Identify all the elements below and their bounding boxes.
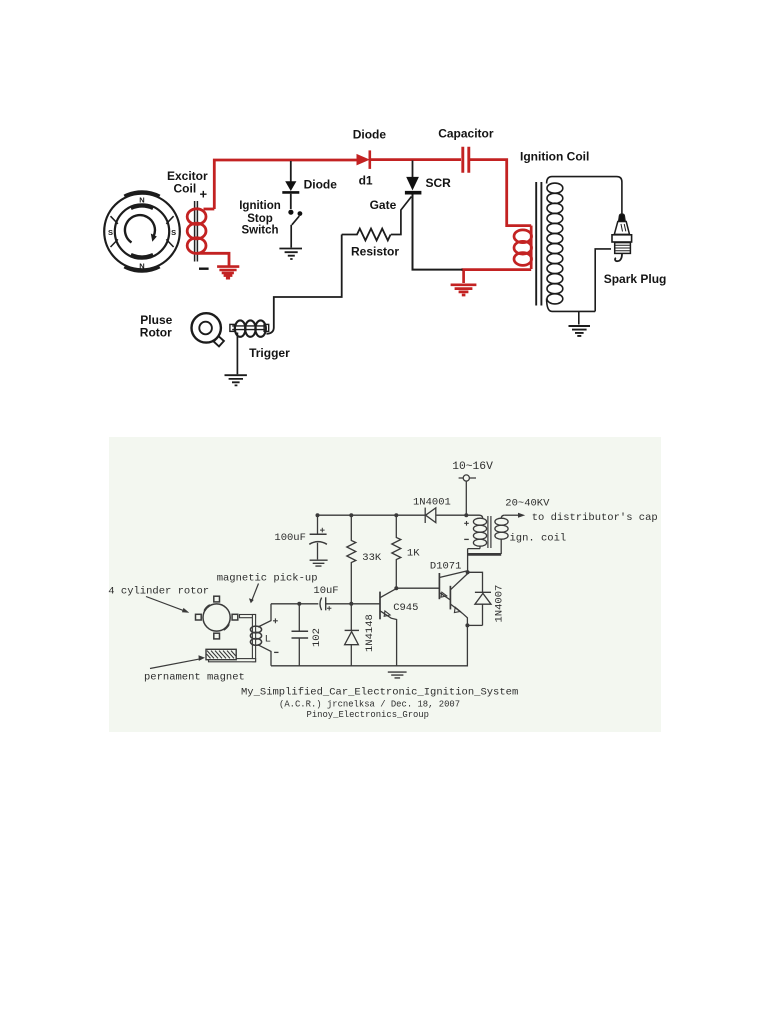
diode 1N4148 bbox=[345, 604, 359, 666]
svg-text:d1: d1 bbox=[359, 173, 373, 187]
plus mark primary bbox=[464, 521, 469, 526]
svg-text:Diode: Diode bbox=[304, 177, 338, 191]
ignition coil T1 secondary winding bbox=[495, 515, 508, 539]
transistor C945 bbox=[380, 589, 397, 666]
pickup coil L bbox=[250, 626, 261, 645]
flywheel magneto rotor bbox=[104, 192, 180, 271]
wire trigger coil to ground bbox=[236, 333, 238, 375]
schematic 2 background panel bbox=[109, 437, 661, 732]
SCR Q1 bbox=[405, 177, 422, 193]
ignition coil primary (red) bbox=[514, 226, 532, 269]
svg-text:D1071: D1071 bbox=[430, 561, 462, 573]
wire black SCR cathode to ground junction bbox=[413, 194, 463, 270]
ground (under trigger) bbox=[225, 375, 247, 385]
resistor R1 bbox=[342, 229, 391, 241]
svg-text:Diode: Diode bbox=[353, 127, 387, 141]
ground (under ignition coil) bbox=[569, 326, 591, 336]
svg-text:Switch: Switch bbox=[241, 225, 278, 237]
svg-text:1N4001: 1N4001 bbox=[413, 497, 451, 509]
power input terminal bbox=[459, 475, 476, 481]
trigger coil L2 bbox=[235, 320, 266, 336]
minus terminal label bbox=[199, 268, 209, 270]
svg-text:SCR: SCR bbox=[426, 176, 452, 190]
svg-text:My_Simplified_Car_Electronic_I: My_Simplified_Car_Electronic_Ignition_Sy… bbox=[241, 687, 518, 699]
wire lower bus pickup to 10uF bbox=[271, 603, 318, 605]
arrow rotor label bbox=[146, 597, 187, 612]
permanent magnet bbox=[206, 649, 236, 659]
diode D2 (ignition stop) bbox=[282, 181, 299, 192]
wire red bottom from primary to ground junction bbox=[462, 268, 532, 271]
svg-text:Resistor: Resistor bbox=[351, 245, 399, 259]
wire top bus bbox=[318, 514, 480, 516]
resistor 33K bbox=[347, 515, 356, 604]
ground (red, CDI common) bbox=[451, 270, 477, 295]
wire spark plug return to coil bbox=[595, 249, 611, 312]
svg-text:magnetic pick-up: magnetic pick-up bbox=[217, 573, 318, 585]
wire coil bottom to ground bbox=[578, 311, 580, 324]
svg-text:Ignition: Ignition bbox=[239, 200, 281, 212]
ground (C945 emitter) bbox=[388, 672, 407, 678]
node collector junction bbox=[466, 570, 470, 574]
excitor coil L1 (red) bbox=[187, 209, 229, 266]
wire junction to diode 1N4007 bbox=[468, 572, 483, 592]
pulse rotor (pickup wheel) bbox=[192, 313, 224, 346]
svg-text:Rotor: Rotor bbox=[140, 326, 172, 340]
svg-text:Spark Plug: Spark Plug bbox=[604, 272, 667, 286]
svg-text:1K: 1K bbox=[407, 547, 420, 559]
svg-text:Capacitor: Capacitor bbox=[438, 126, 494, 140]
ground (red, under excitor coil) bbox=[217, 267, 239, 279]
svg-text:ign. coil: ign. coil bbox=[510, 533, 567, 545]
node 102 junction bbox=[297, 602, 301, 606]
switch SW1 bbox=[288, 210, 302, 225]
svg-text:to distributor's cap: to distributor's cap bbox=[532, 512, 658, 524]
node base junction bbox=[394, 586, 398, 590]
plus mark 10uF bbox=[327, 606, 331, 610]
svg-text:+: + bbox=[200, 187, 208, 202]
trigger coil core bbox=[230, 324, 269, 331]
wire pickup top lead bbox=[258, 604, 271, 627]
svg-text:Ignition Coil: Ignition Coil bbox=[520, 150, 589, 164]
transistor D1071 (darlington) bbox=[439, 571, 467, 626]
wire emitter down and bottom bus bbox=[271, 625, 467, 665]
wire gate lead bbox=[391, 197, 412, 235]
svg-text:10uF: 10uF bbox=[313, 585, 338, 597]
ignition coil secondary winding bbox=[547, 177, 622, 312]
svg-text:Coil: Coil bbox=[174, 182, 197, 196]
svg-text:pernament magnet: pernament magnet bbox=[144, 671, 245, 683]
pickup core bracket bbox=[209, 615, 256, 662]
svg-text:33K: 33K bbox=[362, 552, 382, 564]
wire black diode branch from red bus bbox=[290, 161, 292, 182]
arrow magnet label bbox=[150, 659, 201, 669]
svg-text:N: N bbox=[139, 261, 144, 270]
wire SCR anode from red bus bbox=[412, 161, 414, 178]
wire red bus diode to capacitor bbox=[370, 158, 461, 161]
capacitor C1 (red plates) bbox=[463, 147, 469, 173]
svg-text:Pinoy_Electronics_Group: Pinoy_Electronics_Group bbox=[307, 710, 430, 720]
minus mark pickup bbox=[274, 651, 278, 653]
wire diode to switch bbox=[290, 194, 292, 209]
rotor (4 cylinder) bbox=[196, 596, 238, 639]
diode d1 (red) bbox=[357, 150, 370, 169]
svg-text:S: S bbox=[171, 228, 176, 237]
svg-text:102: 102 bbox=[311, 628, 323, 647]
ground (under stop switch) bbox=[279, 249, 302, 260]
plus mark 100uF bbox=[320, 528, 325, 533]
svg-text:20~40KV: 20~40KV bbox=[505, 498, 550, 510]
wire 10uF to C945 base bbox=[326, 603, 380, 605]
wire emitter to diode bottom bbox=[467, 624, 482, 626]
svg-text:Stop: Stop bbox=[247, 213, 273, 225]
node emitter junction bbox=[465, 623, 469, 627]
svg-text:10~16V: 10~16V bbox=[452, 461, 493, 473]
svg-text:(A.C.R.) jrcnelksa / Dec. 18,: (A.C.R.) jrcnelksa / Dec. 18, 2007 bbox=[279, 700, 460, 710]
diode 1N4007 bbox=[475, 592, 491, 625]
svg-text:4 cylinder rotor: 4 cylinder rotor bbox=[108, 586, 209, 598]
spark plug P1 bbox=[612, 214, 632, 261]
svg-text:L: L bbox=[265, 634, 271, 646]
resistor 1K bbox=[392, 515, 401, 588]
svg-text:C945: C945 bbox=[393, 602, 418, 614]
wire switch to ground bbox=[290, 225, 292, 248]
wire HV output with arrow bbox=[504, 514, 518, 516]
capacitor 100uF bbox=[309, 515, 327, 559]
wire resistor to trigger coil bbox=[267, 235, 342, 334]
svg-text:S: S bbox=[108, 228, 113, 237]
excitor coil core bbox=[195, 201, 198, 262]
ignition coil core bbox=[536, 182, 541, 306]
svg-text:100uF: 100uF bbox=[274, 532, 306, 544]
transformer pedestal bbox=[468, 539, 502, 572]
ignition coil T1 primary winding bbox=[473, 515, 486, 546]
node 1N4148 junction bbox=[349, 602, 353, 606]
svg-text:1N4007: 1N4007 bbox=[494, 585, 506, 623]
wire red top bus from excitor coil to diode d1 bbox=[214, 160, 356, 209]
minus mark primary bbox=[464, 538, 469, 540]
node junction dots top bus bbox=[316, 513, 469, 517]
svg-text:1N4148: 1N4148 bbox=[364, 614, 376, 652]
wire power to bus bbox=[465, 481, 467, 515]
arrow pickup label bbox=[252, 584, 259, 602]
wire red bus capacitor to ignition coil primary bbox=[469, 160, 531, 226]
plus mark pickup bbox=[273, 618, 278, 623]
ground (100uF) bbox=[310, 560, 328, 566]
svg-text:Trigger: Trigger bbox=[249, 346, 290, 360]
wire D1071 base lead bbox=[396, 587, 439, 589]
svg-text:Gate: Gate bbox=[370, 198, 397, 212]
wire pickup bottom lead bbox=[258, 645, 271, 666]
svg-text:N: N bbox=[139, 196, 144, 205]
capacitor 10uF bbox=[320, 597, 326, 610]
diode 1N4001 bbox=[425, 508, 436, 523]
capacitor 102 bbox=[292, 604, 309, 666]
rotation arrow inside flywheel bbox=[125, 215, 157, 242]
ignition coil T1 core bbox=[488, 516, 491, 548]
